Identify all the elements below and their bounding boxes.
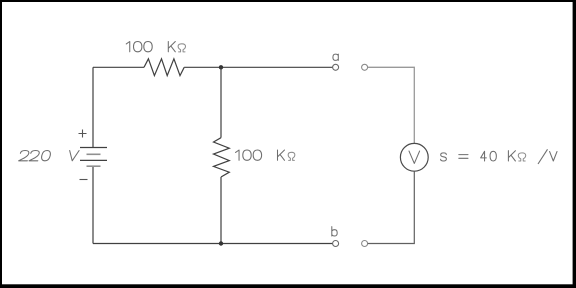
wire: bottom horizontal from battery to terminal b xyxy=(93,243,333,245)
battery B1 short plate xyxy=(87,153,101,155)
wire: left vertical from battery bottom down to bottom wire xyxy=(92,166,94,243)
junction node (bottom of R2) xyxy=(219,241,223,245)
wire: top horizontal from R1 to terminal a xyxy=(184,66,332,68)
label 220 V (battery value) xyxy=(19,151,80,161)
label 100 KΩ (R1 value) xyxy=(126,42,185,52)
voltmeter M1 circle xyxy=(400,143,428,171)
wire: left vertical from top wire down to battery top plate xyxy=(92,67,94,147)
resistor R2 (vertical, 100 KΩ) xyxy=(214,138,230,177)
wire: R2 bottom lead xyxy=(220,177,222,244)
label s = 40 KΩ /V (sensitivity) xyxy=(441,151,557,161)
battery B1 long plate top xyxy=(80,147,107,149)
battery B1 long plate xyxy=(80,159,107,161)
terminal a right circle xyxy=(362,64,368,70)
voltmeter letter V xyxy=(409,151,420,163)
terminal b right circle xyxy=(362,241,368,247)
battery B1 short plate bottom xyxy=(87,165,101,167)
wire: top horizontal from left corner to resistor R1 xyxy=(93,66,144,68)
junction node (top of R2) xyxy=(219,65,223,69)
label 100 KΩ (R2 value) xyxy=(236,150,295,160)
node label a xyxy=(333,54,338,60)
wire: terminal a to voltmeter branch (gray) xyxy=(368,67,415,143)
wire: voltmeter to bottom corner and terminal b xyxy=(368,171,415,243)
wire: R2 top lead xyxy=(220,67,222,137)
slash of /V xyxy=(538,149,548,164)
plus sign xyxy=(79,130,87,138)
minus sign xyxy=(80,179,88,181)
terminal b left circle xyxy=(333,241,339,247)
terminal a left circle xyxy=(333,64,339,70)
resistor R1 (horizontal, 100 KΩ) xyxy=(144,59,184,76)
node label b xyxy=(332,227,337,236)
